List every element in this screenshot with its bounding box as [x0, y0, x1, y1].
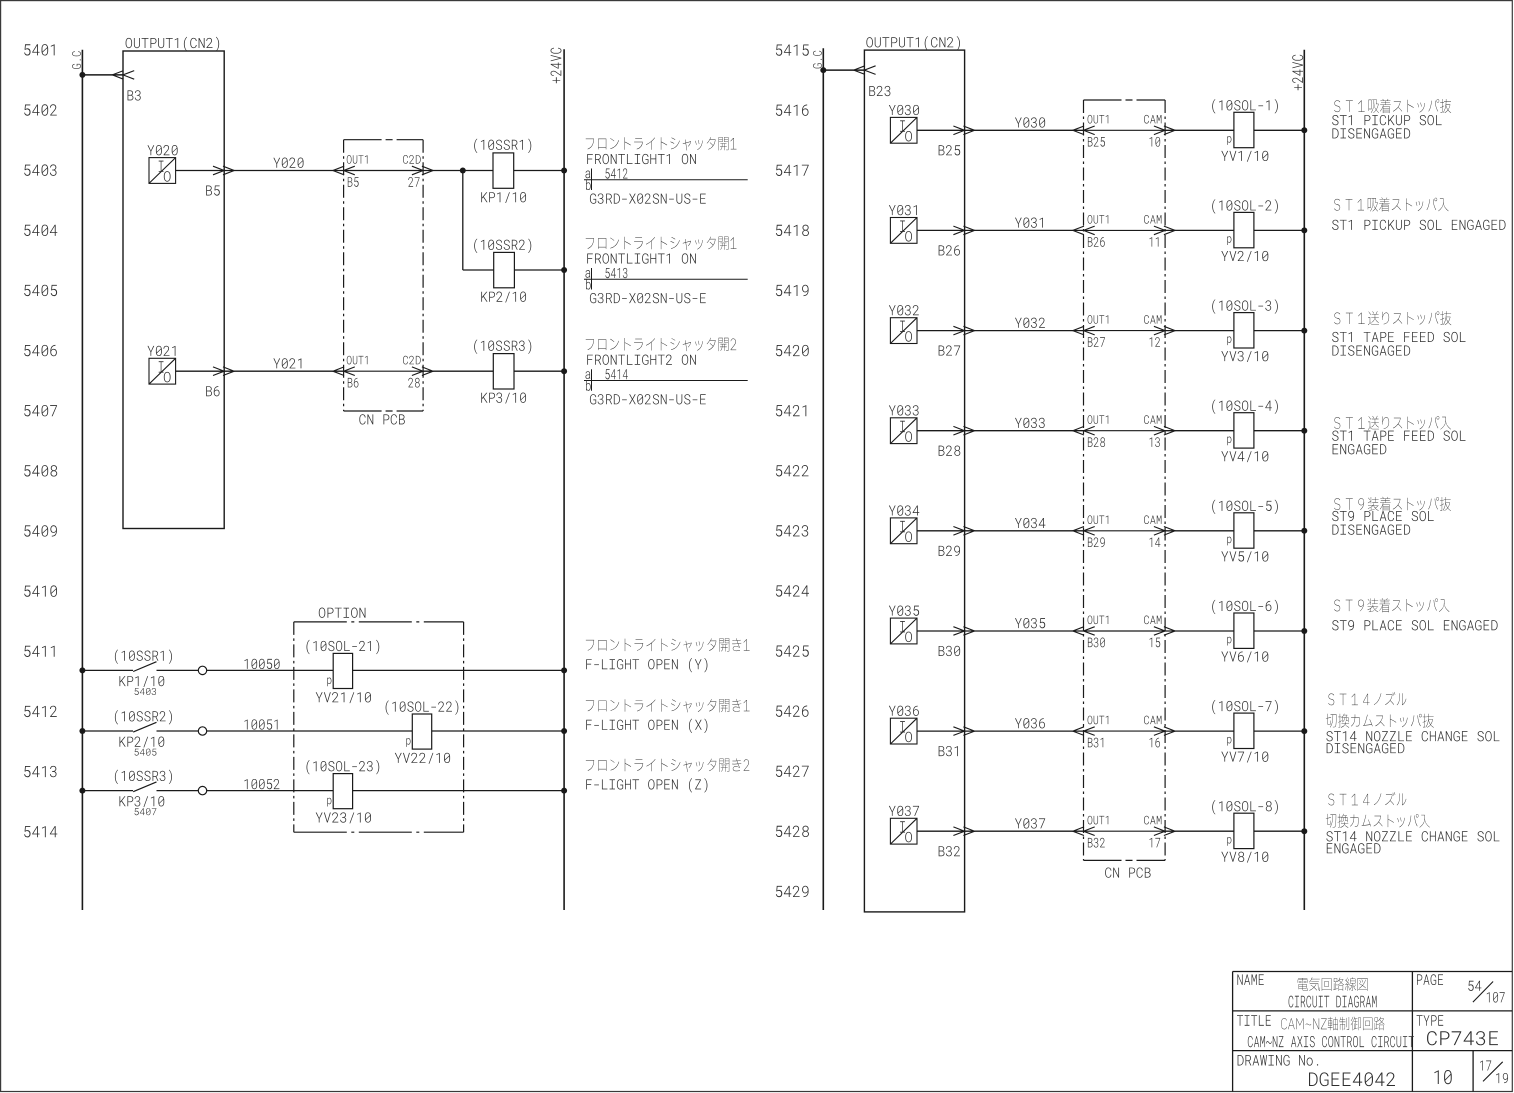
connector pin B31 chevron	[953, 727, 974, 736]
label p row 3	[1227, 336, 1231, 345]
label YV7/10	[1221, 752, 1268, 763]
wire contact to terminal	[157, 790, 199, 792]
solenoid (10SOL-1) YV1/10	[1234, 112, 1254, 147]
annotation row 2	[1332, 197, 1505, 230]
contact Y037 (PLC output I/O)	[890, 818, 917, 844]
wire G.C to OUTPUT1(CN2) pin B3	[82, 74, 123, 76]
label (10SOL-22)	[386, 700, 459, 714]
wire through CN PCB OUT1 to CAM	[1084, 229, 1166, 231]
label p row 1	[1227, 136, 1231, 145]
module OPTION box	[294, 621, 464, 623]
wire G.C to contact KP2/10	[82, 730, 133, 732]
wire solenoid to +24VC	[353, 790, 564, 792]
annotation row 5	[1332, 497, 1451, 535]
label KP2/10	[481, 292, 526, 303]
junction on +24VC right	[1301, 328, 1307, 334]
annotation row 1	[1332, 99, 1451, 139]
connector pin B27 chevron	[953, 326, 974, 335]
title block DRAWING No cell	[1238, 1055, 1395, 1086]
pin number 17	[1150, 838, 1161, 847]
pin number 15	[1150, 638, 1161, 648]
rail G.C (right page left rail)	[822, 48, 824, 910]
label p row 6	[1227, 637, 1231, 646]
pin number 12	[1150, 337, 1160, 347]
pin number 16	[1150, 738, 1161, 748]
connector OUT1 chevron into CN PCB	[1073, 126, 1095, 135]
pin label CAM row 5	[1144, 515, 1161, 524]
label p row 4	[1227, 437, 1231, 446]
wire solenoid YV1/10 to +24VC	[1254, 129, 1304, 131]
pin label OUT1 row 2	[1088, 215, 1109, 224]
relay coil KP3/10 (10SSR3)	[493, 354, 514, 389]
pin label OUT1 row 5	[1088, 515, 1109, 524]
junction on G.C rail right	[820, 67, 826, 73]
pin label B30	[939, 646, 960, 656]
contact letters I/O	[900, 421, 912, 442]
connector pin B32 chevron	[953, 827, 974, 836]
pin label OUT1	[347, 356, 368, 365]
junction branch to KP2/10	[460, 168, 466, 174]
connector block OUTPUT1(CN2) right	[864, 50, 964, 912]
connector pin B23 chevron	[854, 66, 876, 75]
wire CAM 16 to solenoid YV7/10	[1165, 730, 1234, 732]
wire solenoid YV5/10 to +24VC	[1254, 530, 1304, 532]
wire Y036 to connector	[917, 730, 965, 732]
pin label B28 inside CN PCB	[1088, 437, 1105, 447]
connector C2D chevron out of CN PCB	[412, 367, 433, 376]
cross-reference 5405	[135, 749, 157, 756]
annotation row 6	[1332, 598, 1497, 630]
wire KP3/10 to +24VC	[514, 370, 564, 372]
label (10SOL-2)	[1212, 199, 1278, 213]
label CN PCB right	[1105, 867, 1150, 877]
solenoid (10SOL-23) YV23/10	[333, 774, 352, 809]
annotation block line 5414	[584, 338, 748, 405]
net label G.C	[72, 51, 81, 69]
wire solenoid YV8/10 to +24VC	[1254, 830, 1304, 832]
connector OUT1 chevron into CN PCB	[1073, 226, 1095, 235]
net label +24VC right	[1292, 55, 1303, 91]
net label G.C right	[813, 51, 822, 69]
title block TYPE cell	[1417, 1015, 1498, 1045]
label Y030	[889, 105, 919, 115]
junction on +24VC	[561, 728, 567, 734]
label (10SSR1)	[474, 139, 531, 153]
contact letters I/O	[159, 361, 171, 382]
wire CAM 15 to solenoid YV6/10	[1165, 630, 1234, 632]
connector OUT1 chevron into CN PCB	[1073, 326, 1095, 335]
label p row 2	[1227, 236, 1231, 245]
junction on +24VC	[561, 168, 567, 174]
wire through CN PCB OUT1 to C2D	[344, 170, 424, 172]
contact Y035 (PLC output I/O)	[890, 618, 917, 644]
wire 10051 to solenoid YV22/10	[207, 730, 412, 732]
label p	[327, 798, 331, 807]
wire C2D 28 to relay KP3/10	[423, 370, 493, 372]
junction on +24VC right	[1301, 828, 1307, 834]
wire CAM 12 to solenoid YV3/10	[1165, 330, 1234, 332]
pin label B3	[128, 90, 141, 100]
solenoid (10SOL-3) YV3/10	[1234, 313, 1254, 348]
pin label B5	[206, 185, 220, 195]
connector OUT1 chevron into CN PCB	[1073, 426, 1095, 435]
annotation block line 5412	[584, 137, 748, 204]
wire Y030 from OUTPUT1 to CN PCB	[965, 129, 1084, 131]
connector block OUTPUT1(CN2) left	[123, 51, 224, 529]
label Y032	[889, 305, 919, 315]
wire Y036 from OUTPUT1 to CN PCB	[965, 730, 1084, 732]
net label Y035	[1015, 618, 1045, 628]
wire Y034 to connector	[917, 530, 965, 532]
net label Y030	[1015, 117, 1045, 127]
contact Y021 (PLC output I/O)	[149, 358, 176, 384]
connector CAM chevron out of CN PCB	[1154, 527, 1175, 536]
title block TITLE cell	[1237, 1015, 1414, 1047]
contact Y031 (PLC output I/O)	[890, 218, 917, 244]
contact letters I/O	[159, 161, 171, 182]
wire contact to terminal	[157, 669, 199, 671]
label YV22/10	[395, 753, 450, 764]
rail +24VC (left page)	[563, 49, 565, 910]
net label Y020	[273, 158, 303, 168]
net label Y031	[1015, 217, 1043, 227]
annotation F-LIGHT OPEN (Y)	[586, 638, 750, 672]
pin number 11	[1150, 237, 1159, 246]
wire solenoid YV3/10 to +24VC	[1254, 330, 1304, 332]
connector OUT1 chevron into CN PCB	[1073, 527, 1095, 536]
annotation row 7	[1326, 692, 1500, 753]
pin label CAM row 3	[1144, 315, 1161, 324]
junction on +24VC	[561, 667, 567, 673]
connector OUT1 chevron into CN PCB	[1073, 627, 1095, 636]
connector pin B6 chevron	[213, 367, 234, 376]
junction on +24VC right	[1301, 127, 1307, 133]
wire to relay KP2/10	[463, 269, 494, 271]
wire Y030 to connector	[917, 129, 965, 131]
pin label OUT1 row 1	[1088, 115, 1109, 124]
contact letters I/O	[900, 821, 912, 842]
contact Y030 (PLC output I/O)	[890, 117, 917, 143]
title block sheet number 10	[1434, 1070, 1451, 1084]
junction on +24VC right	[1301, 528, 1307, 534]
wire through CN PCB OUT1 to CAM	[1084, 330, 1166, 332]
label p	[406, 738, 410, 747]
annotation row 8	[1326, 792, 1500, 853]
connector CAM chevron out of CN PCB	[1154, 827, 1175, 836]
wire solenoid YV2/10 to +24VC	[1254, 229, 1304, 231]
wire 10050 to solenoid YV21/10	[207, 669, 333, 671]
pin label CAM row 6	[1144, 616, 1161, 625]
connector pin B3 chevron	[112, 71, 134, 80]
wire C2D 27 to relay KP1/10	[423, 170, 493, 172]
label Y031	[889, 205, 917, 215]
label (10SOL-23)	[307, 760, 380, 774]
connector CAM chevron out of CN PCB	[1154, 727, 1175, 736]
pin label B31 inside CN PCB	[1088, 738, 1103, 748]
label (10SSR1)	[115, 649, 172, 663]
label YV3/10	[1221, 351, 1268, 362]
label (10SSR3)	[115, 770, 172, 784]
wire Y032 from OUTPUT1 to CN PCB	[965, 330, 1084, 332]
connector CAM chevron out of CN PCB	[1154, 627, 1175, 636]
pin label OUT1 row 3	[1088, 315, 1109, 324]
wire Y020 from OUTPUT1 to CN PCB	[224, 170, 343, 172]
pin label OUT1 row 4	[1088, 415, 1109, 424]
annotation block line 5413	[584, 237, 748, 304]
junction on +24VC	[561, 368, 567, 374]
solenoid (10SOL-2) YV2/10	[1234, 212, 1254, 247]
wire solenoid to +24VC	[432, 730, 564, 732]
wire Y021 from OUTPUT1 to CN PCB	[224, 370, 343, 372]
wire solenoid YV6/10 to +24VC	[1254, 630, 1304, 632]
label Y035	[889, 606, 919, 616]
label p row 7	[1227, 737, 1231, 746]
wire Y021 to connector	[176, 370, 225, 372]
title block frame	[1233, 972, 1513, 1092]
contact Y033 (PLC output I/O)	[890, 418, 917, 444]
label CN PCB	[359, 414, 404, 424]
wire through CN PCB OUT1 to C2D	[344, 370, 424, 372]
connector CAM chevron out of CN PCB	[1154, 226, 1175, 235]
pin label B30 inside CN PCB	[1088, 638, 1105, 648]
pin label B32	[939, 846, 960, 856]
pin label CAM row 4	[1144, 415, 1161, 424]
wire KP1/10 to +24VC	[514, 170, 564, 172]
contact Y020 (PLC output I/O)	[149, 158, 176, 184]
label KP3/10	[481, 393, 526, 404]
pin label B28	[939, 446, 961, 456]
label (10SOL-7)	[1212, 700, 1278, 714]
title block NAME cell	[1237, 974, 1376, 1007]
label (10SOL-1)	[1212, 99, 1278, 113]
wire Y035 to connector	[917, 630, 965, 632]
label YV1/10	[1221, 151, 1268, 162]
label YV21/10	[316, 692, 371, 703]
contact Y034 (PLC output I/O)	[890, 518, 917, 544]
wire through CN PCB OUT1 to CAM	[1084, 830, 1166, 832]
label KP2/10	[119, 737, 164, 748]
solenoid (10SOL-5) YV5/10	[1234, 513, 1254, 548]
contact letters I/O	[900, 120, 912, 141]
junction on G.C rail	[79, 667, 85, 673]
label OPTION	[319, 608, 366, 618]
junction on +24VC	[561, 267, 567, 273]
net label Y037	[1015, 818, 1045, 828]
pin label OUT1 row 8	[1088, 816, 1109, 825]
contact Y032 (PLC output I/O)	[890, 318, 917, 344]
pin label B29 inside CN PCB	[1088, 537, 1105, 547]
contact letters I/O	[900, 621, 912, 642]
annotation row 4	[1332, 416, 1465, 455]
wire Y033 from OUTPUT1 to CN PCB	[965, 430, 1084, 432]
connector OUT1 chevron into CN PCB	[1073, 827, 1095, 836]
rail +24VC (right page)	[1303, 50, 1305, 910]
solenoid (10SOL-22) YV22/10	[412, 714, 431, 749]
relay coil KP1/10 (10SSR1)	[493, 153, 514, 188]
cross-reference 5403	[135, 688, 157, 695]
wire Y031 from OUTPUT1 to CN PCB	[965, 229, 1084, 231]
wire CAM 17 to solenoid YV8/10	[1165, 830, 1234, 832]
wire through CN PCB OUT1 to CAM	[1084, 430, 1166, 432]
connector CAM chevron out of CN PCB	[1154, 326, 1175, 335]
annotation F-LIGHT OPEN (Z)	[586, 758, 749, 792]
label YV5/10	[1221, 551, 1268, 562]
pin label B6	[348, 378, 359, 388]
wire branch down to KP2/10	[462, 171, 464, 271]
wire Y020 to connector	[176, 170, 225, 172]
title block sheet 17/19	[1480, 1060, 1508, 1083]
wire contact to terminal	[157, 730, 199, 732]
contact blade KP1/10 (NO contact of (10SSR1))	[133, 662, 156, 672]
net label Y034	[1015, 518, 1045, 528]
connector CAM chevron out of CN PCB	[1154, 126, 1175, 135]
cross-reference 5407	[135, 808, 157, 815]
terminal circle	[198, 786, 206, 794]
pin number 14	[1150, 538, 1161, 547]
label (10SSR3)	[474, 339, 531, 353]
pin label OUT1	[347, 155, 368, 164]
pin label B32 inside CN PCB	[1088, 838, 1105, 848]
net label 10052	[244, 779, 279, 789]
label (10SOL-6)	[1212, 600, 1278, 614]
annotation F-LIGHT OPEN (X)	[586, 699, 750, 733]
label p row 8	[1227, 837, 1231, 846]
pin label C2D	[403, 356, 421, 365]
terminal circle	[198, 727, 206, 735]
pin label C2D	[403, 155, 421, 164]
pin label 27	[408, 177, 419, 187]
junction on +24VC right	[1301, 428, 1307, 434]
pin label B5	[348, 177, 359, 187]
contact Y036 (PLC output I/O)	[890, 718, 917, 744]
junction on +24VC right	[1301, 728, 1307, 734]
title block PAGE cell	[1417, 974, 1505, 1002]
pin label OUT1 row 6	[1088, 616, 1109, 625]
label Y034	[889, 505, 919, 515]
wire Y035 from OUTPUT1 to CN PCB	[965, 630, 1084, 632]
pin number 10	[1150, 137, 1161, 147]
connector OUT1 chevron into CN PCB	[1073, 727, 1095, 736]
label Y020	[147, 145, 177, 155]
label OUTPUT1(CN2)	[126, 37, 220, 51]
terminal circle	[198, 666, 206, 674]
junction on +24VC right	[1301, 628, 1307, 634]
connector pin B26 chevron	[953, 226, 974, 235]
contact letters I/O	[900, 721, 912, 742]
label (10SSR2)	[115, 710, 172, 724]
net label 10051	[244, 719, 277, 729]
wire Y032 to connector	[917, 330, 965, 332]
label YV8/10	[1221, 852, 1268, 863]
pin label B26 inside CN PCB	[1088, 237, 1105, 247]
label KP1/10	[481, 192, 526, 203]
pin label CAM row 8	[1144, 816, 1161, 825]
connector C2D chevron out of CN PCB	[412, 166, 433, 175]
wire through CN PCB OUT1 to CAM	[1084, 129, 1166, 131]
pin label B27 inside CN PCB	[1088, 337, 1105, 347]
label (10SOL-21)	[307, 640, 380, 654]
wire CAM 13 to solenoid YV4/10	[1165, 430, 1234, 432]
contact blade KP3/10 (NO contact of (10SSR3))	[133, 782, 156, 792]
wire KP2/10 to +24VC	[514, 269, 564, 271]
junction on G.C rail	[79, 72, 85, 78]
label OUTPUT1(CN2) right	[866, 36, 960, 50]
wire solenoid YV7/10 to +24VC	[1254, 730, 1304, 732]
pin label B26	[939, 245, 960, 255]
label p row 5	[1227, 537, 1231, 546]
wire CAM 11 to solenoid YV2/10	[1165, 229, 1234, 231]
wire G.C to contact KP1/10	[82, 669, 133, 671]
wire Y037 to connector	[917, 830, 965, 832]
label KP1/10	[119, 676, 164, 687]
net label Y036	[1015, 718, 1045, 728]
wire CAM 14 to solenoid YV5/10	[1165, 530, 1234, 532]
connector OUT1 chevron into CN PCB	[333, 166, 355, 175]
solenoid (10SOL-4) YV4/10	[1234, 413, 1254, 448]
connector pin B30 chevron	[953, 627, 974, 636]
label Y021	[147, 346, 175, 356]
label (10SOL-3)	[1212, 299, 1278, 313]
pin label B25	[939, 145, 961, 155]
label YV6/10	[1221, 651, 1268, 662]
wire G.C to contact KP3/10	[82, 790, 133, 792]
net label Y032	[1015, 318, 1045, 328]
label Y036	[889, 706, 919, 716]
wire through CN PCB OUT1 to CAM	[1084, 530, 1166, 532]
pin label B27	[939, 345, 961, 355]
pin label CAM row 2	[1144, 215, 1161, 224]
annotation row 3	[1332, 311, 1465, 356]
label (10SSR2)	[474, 239, 531, 253]
junction on +24VC	[561, 788, 567, 794]
pin label B25 inside CN PCB	[1088, 137, 1105, 147]
wire Y031 to connector	[917, 229, 965, 231]
net label +24VC	[551, 48, 562, 84]
pin label OUT1 row 7	[1088, 716, 1109, 725]
module CN PCB (left)	[344, 139, 424, 141]
pin number 13	[1150, 437, 1160, 447]
wire CAM 10 to solenoid YV1/10	[1165, 129, 1234, 131]
junction on +24VC right	[1301, 227, 1307, 233]
wire Y037 from OUTPUT1 to CN PCB	[965, 830, 1084, 832]
net label Y021	[273, 358, 301, 368]
pin label CAM row 1	[1144, 115, 1161, 124]
wire solenoid to +24VC	[353, 669, 564, 671]
junction on G.C rail	[79, 728, 85, 734]
pin label CAM row 7	[1144, 716, 1161, 725]
solenoid (10SOL-7) YV7/10	[1234, 713, 1254, 748]
label (10SOL-4)	[1212, 399, 1278, 413]
label Y033	[889, 405, 919, 415]
wire Y033 to connector	[917, 430, 965, 432]
pin label B23	[869, 86, 890, 96]
label (10SOL-8)	[1212, 800, 1278, 814]
left line number column 5401-5414	[24, 44, 57, 837]
wire through CN PCB OUT1 to CAM	[1084, 730, 1166, 732]
contact letters I/O	[900, 521, 912, 542]
connector pin B29 chevron	[953, 527, 974, 536]
module CN PCB (right)	[1084, 99, 1166, 101]
label YV23/10	[316, 812, 371, 823]
connector OUT1 chevron into CN PCB	[333, 367, 355, 376]
wire solenoid YV4/10 to +24VC	[1254, 430, 1304, 432]
relay coil KP2/10 (10SSR2)	[494, 252, 515, 287]
connector pin B25 chevron	[953, 126, 974, 135]
label Y037	[889, 806, 919, 816]
pin label 28	[408, 378, 419, 388]
junction on G.C rail	[79, 788, 85, 794]
pin label B29	[939, 546, 960, 556]
